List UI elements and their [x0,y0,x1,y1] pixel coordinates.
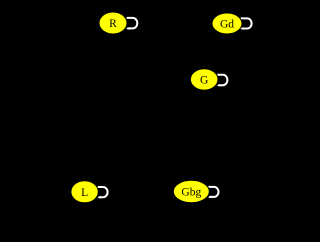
svg-text:Gd: Gd [220,19,234,31]
node G [190,69,218,90]
svg-text:Gbg: Gbg [181,187,201,199]
svg-text:R: R [109,18,117,30]
node L [71,181,98,203]
node R [99,12,127,34]
wire self-loop on R [126,18,138,30]
svg-text:L: L [81,187,88,199]
wire self-loop on Gbg [208,187,219,198]
wire self-loop on L [97,187,108,199]
wire self-loop on G [217,75,228,87]
wire self-loop on Gd [240,18,252,29]
svg-text:G: G [200,74,208,86]
node Gd [212,13,242,34]
node Gbg [173,180,209,202]
